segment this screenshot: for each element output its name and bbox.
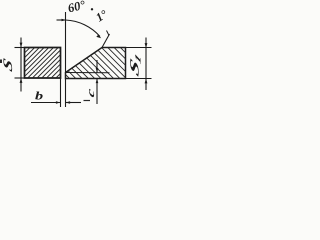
svg-text:S: S (1, 56, 15, 75)
S dimension line (20, 38, 22, 92)
svg-text:b: b (35, 89, 43, 102)
S dimension bottom arrow (20, 78, 23, 83)
S dimension top arrow (20, 43, 23, 48)
scan speck at left edge (0, 60, 2, 64)
S1 dimension bottom arrow (145, 79, 148, 84)
b dimension line right segment (66, 102, 82, 104)
stray dash near c dimension tail (84, 100, 91, 102)
S1 dimension line (145, 38, 147, 91)
svg-text:S1: S1 (127, 47, 142, 81)
root face vertical extension line (65, 12, 67, 73)
c dimension upper arrow (96, 68, 99, 73)
angle arc arrowhead (96, 35, 101, 38)
angle dimension arc (66, 20, 101, 37)
c dimension line lower segment (96, 79, 98, 105)
dot after 60 (91, 8, 93, 10)
bevel extension line (102, 34, 110, 48)
b dimension right arrow (66, 101, 71, 104)
right plate hatching (37, 46, 153, 80)
left plate outline (25, 48, 61, 79)
svg-text:1°: 1° (93, 7, 110, 25)
bevel extension upper wobble (107, 31, 110, 36)
S1 bottom extension line (126, 78, 152, 80)
right plate outline (66, 48, 126, 79)
b dimension left arrow (56, 101, 61, 104)
svg-text:60°: 60° (66, 0, 86, 15)
b right extension line (root face extended) (65, 79, 67, 108)
c extension line (root face top) (66, 72, 110, 74)
b dimension line left segment (31, 102, 61, 104)
left plate hatching (0, 46, 88, 80)
angle dimension tick with arrow (57, 19, 67, 21)
c dimension lower arrow (96, 79, 99, 84)
S bottom extension line (15, 77, 26, 79)
c dimension line upper segment (96, 60, 98, 73)
S1 dimension top arrow (145, 43, 148, 48)
S1 top extension line (103, 47, 152, 49)
b left extension line (left plate edge extended) (60, 78, 62, 107)
svg-text:c: c (85, 86, 97, 99)
S top extension line (15, 47, 26, 49)
